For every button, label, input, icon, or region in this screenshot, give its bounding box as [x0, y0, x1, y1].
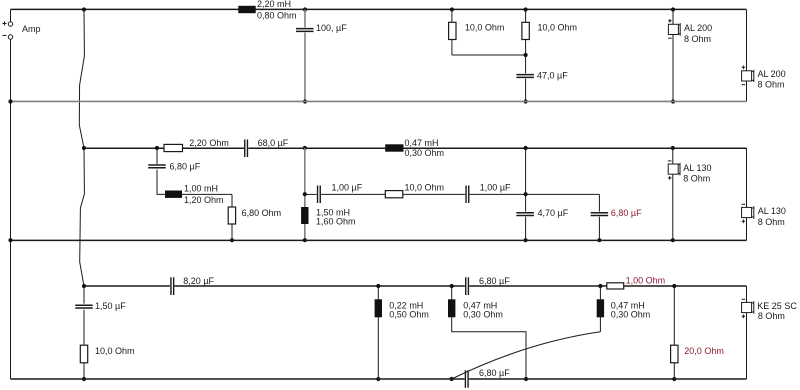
svg-text:AL 130: AL 130	[758, 206, 786, 216]
svg-text:8,20 µF: 8,20 µF	[183, 276, 214, 286]
capacitor C3 6,80µF	[148, 165, 166, 168]
node: LS1 to bottom rail	[671, 99, 675, 103]
SECTION3	[11, 276, 798, 388]
wire: C8 lower	[525, 217, 527, 241]
node: top rail / C1 branch	[303, 7, 307, 11]
wire: right edge section 3	[746, 286, 748, 379]
wire: bottom rail section 3 segment 2	[469, 378, 747, 380]
wire: C9 branch upper	[598, 194, 600, 211]
wire: branch to C3	[156, 148, 158, 164]
capacitor C2 47,0µF	[516, 75, 534, 78]
node: curve / section 2 input	[82, 146, 86, 150]
wire: L5 branch	[377, 286, 379, 379]
wire: top rail section 3 segment 3	[469, 285, 746, 287]
node: rail / L6 branch	[450, 284, 454, 288]
wire: C8 branch	[525, 148, 527, 212]
amp terminal -	[8, 35, 12, 39]
wire: C3 to L2	[157, 170, 232, 195]
wire: curve from L7 to bottom rail node	[452, 332, 601, 379]
capacitor C10 8,20µF	[171, 277, 174, 295]
node: L6 jog to bottom rail	[524, 377, 528, 381]
capacitor C12 1,50µF	[75, 305, 93, 308]
inductor L4 0,47mH 0,30Ohm	[385, 144, 403, 151]
wire: bottom rail section 3 segment 1	[11, 378, 465, 380]
resistor R6 10,0 Ohm	[80, 345, 87, 363]
svg-text:10,0 Ohm: 10,0 Ohm	[465, 23, 505, 33]
svg-text:10,0 Ohm: 10,0 Ohm	[538, 23, 578, 33]
wire: amp plus lead	[10, 10, 12, 22]
node: R1/R2/C2 junction	[524, 53, 528, 57]
svg-text:Amp: Amp	[22, 24, 41, 34]
capacitor C8 4,70µF	[516, 213, 534, 216]
wire: left return rail	[10, 40, 12, 380]
resistor R4 2,20 Ohm	[164, 144, 183, 151]
node: C9 to bottom rail	[597, 238, 601, 242]
resistor R7 1,00 Ohm	[607, 283, 624, 289]
node: sub rail / C8	[524, 192, 528, 196]
node: top rail / speaker LS1	[671, 7, 675, 11]
node: curve to bottom rail	[450, 377, 454, 381]
node: rail / L7 branch	[598, 284, 602, 288]
capacitor C11 6,80µF	[466, 277, 469, 295]
inductor L7 0,47mH 0,30Ohm	[597, 299, 604, 317]
svg-text:AL 200: AL 200	[684, 23, 712, 33]
inductor L1 2,20mH 0,80Ohm	[238, 6, 255, 13]
node: C8 to bottom rail	[524, 238, 528, 242]
node: rail / L5 branch	[376, 284, 380, 288]
node: rail / L3 branch	[303, 146, 307, 150]
svg-text:1,00 µF: 1,00 µF	[480, 183, 511, 193]
speaker LS5 KE 25 SC	[742, 298, 746, 300]
svg-text:2,20 Ohm: 2,20 Ohm	[189, 138, 229, 148]
wire: sub rail segment 2	[321, 193, 465, 195]
svg-text:2,20 mH: 2,20 mH	[257, 0, 291, 9]
amp terminal +	[8, 22, 12, 26]
svg-text:8 Ohm: 8 Ohm	[758, 311, 785, 321]
SECTION2	[8, 138, 786, 242]
svg-text:1,00 mH: 1,00 mH	[184, 184, 218, 194]
svg-text:68,0 µF: 68,0 µF	[258, 138, 289, 148]
svg-text:6,80 µF: 6,80 µF	[611, 208, 642, 218]
node: R6 to bottom rail	[82, 377, 86, 381]
svg-text:0,30 Ohm: 0,30 Ohm	[405, 148, 445, 158]
svg-text:0,30 Ohm: 0,30 Ohm	[463, 310, 503, 320]
wire: top rail section 3 segment 2	[175, 285, 465, 287]
svg-text:8 Ohm: 8 Ohm	[684, 34, 711, 44]
node: R8 to bottom rail	[672, 377, 676, 381]
svg-text:0,30 Ohm: 0,30 Ohm	[611, 310, 651, 320]
wire: R1 to R2 jumper	[452, 54, 526, 56]
capacitor C1 100µF	[296, 29, 314, 32]
wire: R1 branch	[451, 10, 453, 56]
node: C1 to bottom rail	[303, 99, 307, 103]
wire: LS3 branch	[672, 148, 674, 240]
wire: C1 branch upper	[304, 10, 306, 28]
svg-text:8 Ohm: 8 Ohm	[758, 217, 785, 227]
capacitor C4 68,0µF	[245, 140, 248, 158]
resistor R3 6,80 Ohm	[228, 207, 235, 224]
node: rail / speaker LS3	[671, 146, 675, 150]
node: L3 to bottom rail	[303, 238, 307, 242]
wire: L7 branch	[599, 286, 601, 332]
wire: right edge section 2	[746, 148, 748, 240]
svg-text:AL 200: AL 200	[758, 69, 786, 79]
node: top rail feed	[82, 7, 86, 11]
node: left rail bottom rail 1	[8, 99, 12, 103]
node: curve / section 3 input	[82, 284, 86, 288]
svg-text:AL 130: AL 130	[683, 163, 711, 173]
wire: sub rail segment 3	[470, 193, 600, 195]
capacitor C13 6,80µF	[465, 370, 468, 388]
wire: C1 branch lower	[304, 33, 306, 102]
inductor L5 0,22mH 0,50Ohm	[375, 299, 382, 317]
wire: amp feed S-curve down to sections 2 and 3	[79, 10, 84, 287]
wire: top rail section 1	[11, 8, 747, 10]
svg-text:6,80 µF: 6,80 µF	[479, 368, 510, 378]
wire: sub rail segment 1	[305, 193, 317, 195]
svg-text:10,0 Ohm: 10,0 Ohm	[95, 346, 135, 356]
wire: LS1 branch	[672, 10, 674, 102]
node: rail / R8 branch	[672, 284, 676, 288]
capacitor C9 6,80µF	[591, 213, 609, 216]
speaker LS4 AL 130	[742, 203, 746, 205]
wire: top rail section 2 left	[84, 147, 244, 149]
svg-text:KE 25 SC: KE 25 SC	[757, 301, 797, 311]
inductor L6 0,47mH 0,30Ohm	[448, 299, 455, 317]
wire: L3 branch	[304, 148, 306, 240]
svg-text:6,80 µF: 6,80 µF	[479, 276, 510, 286]
node: C2 to bottom rail	[524, 99, 528, 103]
svg-text:8 Ohm: 8 Ohm	[758, 80, 785, 90]
node: rail / C8 branch top	[524, 146, 528, 150]
svg-text:6,80 µF: 6,80 µF	[170, 161, 201, 171]
svg-text:1,60 Ohm: 1,60 Ohm	[316, 217, 356, 227]
wire: bottom rail section 2	[11, 239, 747, 241]
speaker LS1 AL 200	[668, 19, 672, 23]
node: R3 to bottom rail	[230, 238, 234, 242]
wire: R8 branch	[673, 286, 675, 379]
wire: right edge section 1	[746, 10, 748, 102]
svg-text:10,0 Ohm: 10,0 Ohm	[405, 183, 445, 193]
svg-text:20,0 Ohm: 20,0 Ohm	[684, 346, 724, 356]
svg-text:6,80 Ohm: 6,80 Ohm	[242, 208, 282, 218]
wire: R2 branch upper	[525, 10, 527, 74]
node: L3 branch / midrange sub rail	[303, 192, 307, 196]
svg-text:4,70 µF: 4,70 µF	[538, 208, 569, 218]
wire: top rail section 2 right	[248, 147, 746, 149]
wire: L6 branch and jog to bottom rail	[452, 286, 526, 379]
wire: C12 to R6	[83, 310, 85, 379]
node: left rail bottom rail 2	[8, 238, 12, 242]
node: top rail / R2 branch	[524, 7, 528, 11]
svg-text:47,0 µF: 47,0 µF	[537, 71, 568, 81]
speaker LS2 AL 200	[742, 66, 746, 70]
capacitor C6 1,00µF	[466, 186, 469, 204]
speaker LS3 AL 130	[668, 160, 672, 162]
resistor R8 20,0 Ohm	[671, 345, 678, 363]
node: L5 to bottom rail	[376, 377, 380, 381]
resistor R2 10,0 Ohm	[522, 22, 529, 39]
svg-text:1,50 µF: 1,50 µF	[95, 301, 126, 311]
wire: C2 branch lower	[525, 79, 527, 102]
wire: C12 branch upper	[83, 286, 85, 304]
node: LS3 to bottom rail	[671, 238, 675, 242]
inductor L3 1,50mH 1,60Ohm	[301, 207, 308, 224]
svg-text:1,00 µF: 1,00 µF	[332, 183, 363, 193]
resistor R1 10,0 Ohm	[449, 22, 456, 39]
wire: bottom rail section 1	[11, 100, 747, 102]
svg-text:100, µF: 100, µF	[316, 23, 347, 33]
svg-text:1,00 Ohm: 1,00 Ohm	[626, 276, 666, 286]
svg-text:0,80 Ohm: 0,80 Ohm	[257, 10, 297, 20]
resistor R5 10,0 Ohm	[385, 191, 403, 198]
capacitor C5 1,00µF	[318, 186, 321, 204]
node: top rail / R1 branch	[450, 7, 454, 11]
inductor L2 1,00mH 1,20Ohm	[165, 191, 182, 198]
svg-text:0,47 mH: 0,47 mH	[405, 138, 439, 148]
node: rail / RC branch	[155, 146, 159, 150]
svg-text:1,20 Ohm: 1,20 Ohm	[184, 195, 224, 205]
svg-text:0,50 Ohm: 0,50 Ohm	[389, 310, 429, 320]
wire: top rail section 3 segment 1	[84, 285, 170, 287]
wire: L2 to R3	[231, 194, 233, 240]
svg-text:8 Ohm: 8 Ohm	[683, 174, 710, 184]
wire: C9 lower	[598, 217, 600, 241]
